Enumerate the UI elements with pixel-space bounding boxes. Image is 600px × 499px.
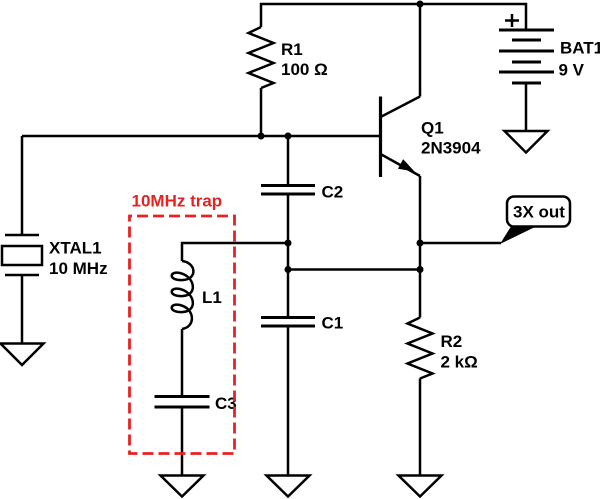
svg-text:R1: R1: [281, 40, 303, 59]
wire R2 bottom lead: [419, 379, 422, 476]
wire output: [420, 242, 501, 245]
ground R2: [399, 476, 442, 497]
inductor L1: [172, 261, 194, 329]
wire L1 top lead to node: [182, 243, 288, 261]
resistor R1: [249, 27, 274, 88]
wire L1 to C3: [181, 329, 184, 396]
junction dot output node: [417, 240, 424, 247]
svg-text:10MHz trap: 10MHz trap: [132, 192, 223, 211]
svg-text:R2: R2: [441, 332, 463, 351]
junction dot R1 / base rail: [258, 133, 265, 140]
wire top rail from R1 top to battery positive: [261, 4, 526, 30]
svg-text:2 kΩ: 2 kΩ: [441, 353, 478, 372]
svg-text:BAT1: BAT1: [560, 39, 600, 58]
wire emitter lead down to R2: [419, 176, 422, 318]
wire collector lead: [419, 4, 422, 97]
red dashed trap outline: [130, 216, 235, 454]
ground battery: [505, 131, 548, 153]
battery BAT1: [499, 30, 554, 83]
wire C2 top lead: [287, 136, 290, 185]
wire crystal bottom lead: [21, 275, 24, 344]
wire R1 bottom lead: [260, 88, 263, 136]
wire cross link node to emitter branch: [288, 268, 420, 271]
flag 3X out box: [507, 197, 570, 227]
svg-text:XTAL1: XTAL1: [49, 239, 102, 258]
wire C2 bottom lead: [287, 194, 290, 243]
svg-text:10 MHz: 10 MHz: [49, 259, 108, 278]
svg-text:100 Ω: 100 Ω: [281, 60, 328, 79]
ground crystal: [1, 344, 44, 366]
svg-text:3X out: 3X out: [513, 203, 565, 222]
resistor R2: [408, 318, 433, 379]
wire node to C1: [287, 243, 290, 317]
capacitor C2: [261, 186, 315, 195]
wire C3 bottom lead: [181, 407, 184, 476]
junction dot C2 / base rail: [285, 133, 292, 140]
junction dot C2 / L1 / C1 node: [285, 240, 292, 247]
wire C1 bottom lead: [287, 326, 290, 476]
ground C1: [267, 476, 310, 497]
battery plus sign: [505, 14, 519, 27]
wire battery negative lead: [525, 83, 528, 131]
node junction dot collector / top rail: [417, 1, 424, 8]
junction dot emitter branch: [417, 266, 424, 273]
wire base rail: [22, 135, 381, 138]
wire crystal top lead: [21, 136, 24, 235]
svg-text:C1: C1: [322, 314, 344, 333]
svg-text:2N3904: 2N3904: [421, 139, 481, 158]
flag 3X out pointer: [500, 227, 536, 245]
svg-text:9 V: 9 V: [559, 61, 585, 80]
ground trap: [161, 476, 204, 497]
transistor Q1: [381, 97, 421, 178]
crystal XTAL1: [2, 235, 42, 275]
capacitor C3: [155, 397, 210, 408]
capacitor C1: [261, 318, 315, 327]
svg-text:L1: L1: [202, 288, 222, 307]
svg-text:Q1: Q1: [421, 119, 444, 138]
svg-text:C2: C2: [322, 183, 344, 202]
junction dot C1 node: [285, 266, 292, 273]
